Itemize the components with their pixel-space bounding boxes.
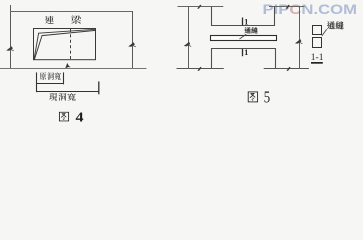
svg-text:1: 1: [244, 48, 248, 57]
bottom slab line right segment: [264, 68, 309, 70]
legend label 通: [327, 21, 335, 29]
break mark on right wall (fig5): [296, 40, 303, 44]
caption 图 (fig5): [248, 92, 257, 102]
legend caption underline: [311, 62, 323, 64]
legend precast block upper: [313, 26, 322, 35]
leader to slab: [240, 34, 247, 39]
svg-text:1-1: 1-1: [311, 53, 324, 63]
break mark bottom-left: [197, 67, 201, 71]
dim label 洞: [47, 72, 53, 79]
top slab line right segment: [269, 6, 305, 8]
section tick 1 lower: [242, 49, 244, 56]
wall axis right (fig4): [132, 11, 134, 69]
wall edge left (fig5): [188, 6, 190, 69]
top slab line left segment: [178, 6, 224, 8]
dim label 洞: [59, 93, 67, 101]
deformed beam wedge line upper: [34, 29, 96, 59]
break mark top-left: [197, 5, 201, 9]
label 缝 (fig5): [251, 27, 257, 33]
svg-text:PIPCN.COM: PIPCN.COM: [263, 2, 358, 17]
svg-text:4: 4: [76, 110, 84, 125]
dim line 原洞宽: [36, 83, 64, 85]
legend label 缝: [336, 21, 344, 29]
break mark on right wall: [129, 43, 136, 47]
dim label 原: [40, 72, 46, 79]
dim label 现: [49, 93, 57, 101]
break mark bottom-right: [286, 67, 290, 71]
break mark top-right: [286, 5, 290, 9]
legend leader: [322, 29, 327, 36]
break mark on left wall: [7, 47, 14, 51]
bottom slab line left segment: [177, 68, 224, 70]
beam top line 连梁: [10, 11, 133, 13]
lower opening outline: [212, 49, 276, 69]
label 通 (fig5): [244, 27, 250, 33]
label 连: [45, 16, 54, 24]
section tick 1 upper: [242, 18, 244, 26]
beam outline rectangle: [34, 29, 96, 60]
scan background: [0, 0, 363, 136]
centerline arrow on floor: [66, 64, 70, 68]
coupling slab with through joint: [211, 36, 277, 41]
dim label 宽: [55, 72, 61, 79]
break mark on left wall (fig5): [185, 42, 192, 46]
legend precast block lower: [313, 38, 322, 48]
wall axis left (fig4): [10, 5, 12, 69]
caption 图 (fig4): [59, 112, 68, 121]
upper opening outline: [212, 7, 275, 26]
dim tick right 原洞宽: [63, 72, 65, 84]
dim tick right 现洞宽: [98, 81, 100, 94]
svg-text:5: 5: [264, 87, 270, 106]
label 梁: [71, 15, 81, 24]
svg-text:1: 1: [244, 17, 248, 26]
dashed centerline: [70, 29, 72, 60]
dim line 现洞宽: [36, 91, 99, 93]
deformed beam wedge line lower: [34, 30, 95, 59]
dim label 宽: [68, 93, 76, 101]
wall edge right (fig5): [299, 6, 301, 69]
floor line (fig4): [0, 68, 147, 70]
dim tick shared left: [36, 72, 38, 92]
